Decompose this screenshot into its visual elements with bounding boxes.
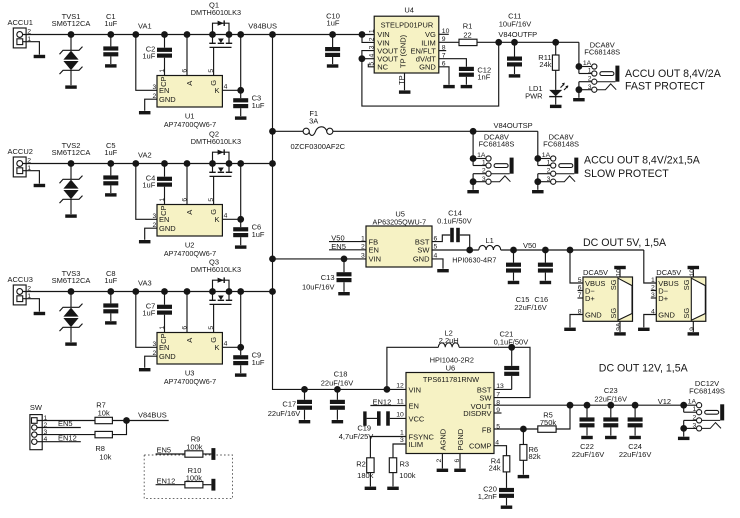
wire V50 to USB A VBUS [567,247,574,254]
svg-text:FC68148S: FC68148S [584,48,620,57]
ground DCA8V slow B [532,190,544,193]
svg-text:7: 7 [496,391,500,398]
svg-text:SG: SG [609,308,618,319]
svg-text:1uF: 1uF [252,101,265,110]
svg-text:VCC: VCC [409,414,425,423]
svg-text:VA3: VA3 [138,278,152,287]
svg-text:PWR: PWR [525,92,543,101]
svg-text:1A: 1A [688,399,697,406]
svg-text:10uF/16V: 10uF/16V [302,283,335,292]
svg-text:SG: SG [609,279,618,290]
ground LD1 [550,105,562,108]
wire to slow connector A [472,131,474,158]
ground AGND [437,469,449,472]
svg-text:V84BUS: V84BUS [248,21,277,30]
svg-text:K: K [214,343,219,352]
wire U5 SW to L1 [432,249,479,251]
svg-text:STELPD01PUR: STELPD01PUR [381,20,434,29]
ground R9 sideways [211,448,215,460]
ground U3 GND [139,368,151,371]
svg-text:6: 6 [181,69,188,73]
svg-text:2: 2 [153,350,157,357]
svg-text:DISDRV: DISDRV [463,409,491,418]
svg-text:1uF: 1uF [142,309,155,318]
svg-text:GND: GND [585,310,602,319]
ground ACCU2 [34,184,46,187]
svg-text:4: 4 [224,83,228,90]
svg-text:10: 10 [616,269,623,277]
wire SW pin3 to R8 [37,434,95,436]
ground C24 [629,436,641,439]
ground C17 [299,420,311,423]
svg-text:1uF: 1uF [104,19,117,28]
svg-text:FAST PROTECT: FAST PROTECT [625,80,705,92]
wire U5 GND to ground [432,259,443,269]
body diode Q3 [213,280,230,291]
wire ACCU3 pin1 to ground [23,299,40,312]
svg-text:V84OUTFP: V84OUTFP [498,30,537,39]
svg-text:VA2: VA2 [138,150,152,159]
ground C15 [508,281,520,284]
DCA8V fast jack contacts [592,64,597,69]
svg-text:1: 1 [368,29,375,33]
svg-text:4: 4 [224,340,228,347]
junction bus row3 [269,288,276,295]
wire DCA5V A D- D+ stubs [578,290,584,292]
ground C5 [105,193,117,196]
wire VA3 rail [23,291,273,293]
svg-text:1uF: 1uF [252,358,265,367]
wire U1 GND pin to ground [145,99,157,111]
svg-text:10k: 10k [98,408,110,417]
op-amp U1 AP74700QW6-7 ideal diode controller [157,76,222,108]
svg-text:EN: EN [409,401,419,410]
svg-text:11: 11 [397,399,404,406]
svg-text:5: 5 [208,326,215,330]
svg-text:HPI0630-4R7: HPI0630-4R7 [452,255,496,264]
svg-text:0ZCF0300AF2C: 0ZCF0300AF2C [290,142,345,151]
ground C20 [501,506,513,509]
svg-text:V84OUTSP: V84OUTSP [494,121,533,130]
svg-text:4,7uF/25V: 4,7uF/25V [339,432,374,441]
svg-text:3: 3 [400,437,404,444]
ground ACCU1 [34,55,46,58]
ground C12 [461,85,473,88]
svg-text:3: 3 [153,213,157,220]
ground C10 [327,64,339,67]
wire USB B GND to ground [644,315,657,328]
svg-text:SW: SW [417,246,430,255]
svg-text:1nF: 1nF [477,73,490,82]
svg-text:24k: 24k [539,60,551,69]
svg-text:EN: EN [159,215,169,224]
ground U5 [437,269,449,272]
ground TVS2 [65,214,77,217]
svg-text:EN: EN [159,86,169,95]
svg-text:DMTH6010LK3: DMTH6010LK3 [191,8,241,17]
svg-text:1: 1 [159,326,166,330]
wire U4 pin10 VG stub [439,33,449,35]
svg-text:FC68148S: FC68148S [543,140,579,149]
svg-text:6: 6 [181,198,188,202]
svg-text:3: 3 [153,341,157,348]
svg-text:GND: GND [419,63,436,72]
svg-text:C13: C13 [321,273,335,282]
wire SW pin4 EN12 [37,441,81,443]
svg-text:TP (GND): TP (GND) [399,34,408,68]
ground TVS1 [65,85,77,88]
wire U2 GND pin to ground [145,228,157,240]
svg-text:10: 10 [442,28,450,35]
svg-text:10k: 10k [99,453,111,462]
node VA3 [132,288,139,295]
svg-text:SLOW PROTECT: SLOW PROTECT [584,168,669,180]
ground R3 [387,487,399,490]
svg-text:GND: GND [159,352,176,361]
svg-text:FC68148S: FC68148S [478,140,514,149]
svg-text:A: A [185,81,194,86]
ground C3 [235,116,247,119]
wire rail to U2 pin 6 A [184,160,191,167]
svg-text:1uF: 1uF [252,230,265,239]
wire DCA5V B shield top to ground [692,269,694,277]
wire U6 BST [494,388,512,390]
svg-text:10: 10 [689,269,696,277]
ground C13 [338,292,350,295]
wire DCA5V A shield top to ground [619,269,621,277]
wire ACCU2 pin1 to ground [23,171,40,184]
svg-text:9: 9 [689,327,696,331]
wire U4 pin2 VIN jog [362,35,374,43]
wire V12 rail [494,404,684,406]
wire U6 DISDRV stub [494,412,502,414]
wire V84OUTFP to fast connector [578,42,580,66]
wire Q1 gate to U1 pin 5 G [213,47,215,75]
ground U4 TP [399,90,411,93]
svg-text:DMTH6010LK3: DMTH6010LK3 [191,137,241,146]
ground R2 [365,487,377,490]
svg-text:1A: 1A [542,152,551,159]
svg-text:2: 2 [153,93,157,100]
ground C9 [235,373,247,376]
svg-text:4: 4 [368,54,375,58]
svg-text:5: 5 [208,198,215,202]
svg-text:EN: EN [369,246,379,255]
svg-text:5: 5 [578,277,582,284]
svg-text:C18: C18 [334,370,348,379]
svg-text:4: 4 [224,212,228,219]
op-amp U3 AP74700QW6-7 ideal diode controller [157,333,222,365]
ground R10 sideways [211,479,215,491]
ground C6 [235,245,247,248]
svg-text:GND: GND [159,95,176,104]
junction C17 [301,386,308,393]
wire V50 rail [501,249,644,251]
dashed option box [144,455,232,499]
svg-text:3A: 3A [309,116,318,125]
svg-text:EN: EN [159,343,169,352]
svg-text:R2: R2 [356,460,366,469]
svg-text:AP74700QW6-7: AP74700QW6-7 [164,249,216,258]
svg-text:4: 4 [651,308,655,315]
capacitor C16 22uF/16V [542,247,549,254]
svg-text:V12: V12 [658,397,671,406]
capacitor C15 22uF/16V [510,247,517,254]
wire SW pin1 to R7 [37,420,95,422]
ground ACCU3 [34,312,46,315]
svg-text:1uF: 1uF [104,276,117,285]
wire rail to U1 pin 6 A [184,31,191,38]
wire VA3 to U3 EN pin [136,292,157,348]
wire SW pin2 EN5 [37,427,81,429]
wire VA2 rail [23,163,273,165]
svg-text:1uF: 1uF [142,52,155,61]
wire Q3 gate to U3 pin 5 G [213,304,215,332]
wire U4 pin3 pin4 VOUT jog [362,51,374,59]
ground U2 GND [139,240,151,243]
wire V84OUTSP [470,128,477,135]
svg-text:ACCU1: ACCU1 [8,18,33,27]
ground DC12V [678,437,690,440]
wire U4 VOUT loop to V84OUTFP [362,42,499,106]
svg-text:AGND: AGND [438,428,447,450]
wire SW node [459,346,512,348]
svg-text:1uF: 1uF [327,19,340,28]
ground C8 [105,321,117,324]
svg-text:2,2uH: 2,2uH [439,336,459,345]
svg-text:EN12: EN12 [157,476,176,485]
ground USB B [638,328,650,331]
svg-text:9A: 9A [616,322,623,331]
wire to inductor L2 [384,386,391,393]
svg-text:PGND: PGND [456,428,465,450]
wire DCA5V A shield bottom to ground [619,321,621,332]
svg-text:13: 13 [496,383,504,390]
body diode Q1 [213,23,230,34]
svg-text:22uF/16V: 22uF/16V [514,303,547,312]
junction bus row2 [269,160,276,167]
svg-text:ACCU OUT 8,4V/2A: ACCU OUT 8,4V/2A [625,68,722,80]
svg-text:SG: SG [682,279,691,290]
svg-text:AP63205QWU-7: AP63205QWU-7 [373,217,427,226]
wire U4 pin8 EN/FLT stub [439,50,446,52]
svg-text:K: K [214,215,219,224]
svg-text:G: G [209,80,218,86]
DC12V jack contacts [697,403,702,408]
svg-text:V50: V50 [523,241,536,250]
svg-text:AP74700QW6-7: AP74700QW6-7 [164,377,216,386]
svg-text:2: 2 [368,37,375,41]
ground PGND [454,469,466,472]
svg-text:22: 22 [463,30,471,39]
svg-text:5: 5 [368,62,375,66]
wire DCA5V B D- D+ stubs [651,290,657,292]
wire VA2 to U2 EN pin [136,164,157,220]
svg-text:EN5: EN5 [58,419,73,428]
ground DCA8V fast [573,98,585,101]
svg-text:DMTH6010LK3: DMTH6010LK3 [191,265,241,274]
wire to slow connector B [537,131,539,158]
svg-text:DC OUT 12V, 1,5A: DC OUT 12V, 1,5A [599,362,689,374]
svg-text:10uF/16V: 10uF/16V [499,19,532,28]
svg-text:GND: GND [159,224,176,233]
svg-text:DCA5V: DCA5V [656,268,681,277]
ground C23 [605,436,617,439]
svg-text:AP74700QW6-7: AP74700QW6-7 [164,120,216,129]
ground C22 [581,436,593,439]
svg-text:22uF/16V: 22uF/16V [572,450,605,459]
svg-text:22uF/16V: 22uF/16V [268,409,301,418]
svg-text:22uF/16V: 22uF/16V [619,450,652,459]
node VA2 [132,160,139,167]
svg-text:C17: C17 [282,400,296,409]
svg-text:8: 8 [442,44,446,51]
svg-text:SM6T12CA: SM6T12CA [52,148,91,157]
svg-text:K: K [214,86,219,95]
svg-text:10: 10 [396,412,404,419]
DCA8V slow B jack contacts [551,156,556,161]
wire U6 FB to R5 [494,428,538,430]
ground U4 GND [443,85,455,88]
wire U4 pin5 NC stub [368,64,374,67]
ground C16 [540,281,552,284]
svg-text:GND: GND [413,255,430,264]
svg-text:ILIM: ILIM [409,440,424,449]
svg-text:D+: D+ [658,294,668,303]
svg-text:SG: SG [682,308,691,319]
svg-text:0.1uF/50V: 0.1uF/50V [437,216,472,225]
ground U1 GND [139,111,151,114]
svg-text:FC68149S: FC68149S [689,386,725,395]
wire DCA5V B shield bottom to ground [692,321,694,332]
wire VA1 to U1 EN pin [136,35,157,91]
wire USB A GND to ground [570,315,583,328]
svg-text:SM6T12CA: SM6T12CA [52,276,91,285]
svg-text:DCA5V: DCA5V [583,268,608,277]
svg-text:ACCU2: ACCU2 [8,147,33,156]
svg-text:5: 5 [208,69,215,73]
wire rail to U3 pin 6 A [184,288,191,295]
svg-text:U6: U6 [446,363,456,372]
svg-text:TPS611781RNW: TPS611781RNW [423,375,479,384]
svg-text:U4: U4 [404,5,414,14]
svg-text:1A: 1A [583,60,592,67]
svg-text:D+: D+ [585,294,595,303]
node VA1 [132,31,139,38]
svg-text:ACCU3: ACCU3 [8,275,33,284]
wire VA1 rail [23,34,375,36]
svg-text:8: 8 [578,308,582,315]
svg-text:3: 3 [153,84,157,91]
wire ACCU1 pin1 to ground [23,42,40,55]
ground C18 [332,420,344,423]
svg-text:A: A [185,338,194,343]
svg-text:24k: 24k [489,463,501,472]
svg-text:ACCU OUT 8,4V/2x1,5A: ACCU OUT 8,4V/2x1,5A [584,155,701,167]
body diode Q2 [213,152,230,163]
svg-text:COMP: COMP [469,442,492,451]
svg-text:6: 6 [181,326,188,330]
DCA8V slow A jack contacts [486,156,491,161]
wire V84BUS vertical bus [273,35,407,390]
svg-text:1uF: 1uF [142,181,155,190]
svg-text:3: 3 [368,45,375,49]
svg-text:1uF: 1uF [104,148,117,157]
svg-text:V84BUS: V84BUS [138,411,167,420]
svg-text:12: 12 [396,383,404,390]
svg-text:1: 1 [651,277,655,284]
svg-text:A: A [185,210,194,215]
svg-text:2: 2 [153,222,157,229]
svg-text:82k: 82k [529,452,541,461]
svg-text:1: 1 [159,198,166,202]
svg-text:R3: R3 [400,460,410,469]
ground R6 [518,475,530,478]
svg-text:G: G [209,209,218,215]
svg-text:DC OUT 5V, 1,5A: DC OUT 5V, 1,5A [583,237,667,249]
ground C11 [509,74,521,77]
svg-text:EN12: EN12 [58,433,77,442]
junction C18 [334,386,341,393]
wire bus to U5 VIN [269,256,276,263]
svg-text:VIN: VIN [409,385,422,394]
svg-text:L1: L1 [486,236,494,245]
svg-text:1A: 1A [477,152,486,159]
svg-text:GND: GND [658,310,675,319]
svg-text:1: 1 [400,430,404,437]
svg-text:FB: FB [482,425,492,434]
svg-text:G: G [209,337,218,343]
ground DCA8V slow A [467,190,479,193]
wire V50 to USB B VBUS [644,250,657,283]
svg-text:1: 1 [159,69,166,73]
op-amp U2 AP74700QW6-7 ideal diode controller [157,205,222,237]
wire U3 GND pin to ground [145,356,157,368]
ground C1 [105,64,117,67]
ground TVS3 [65,342,77,345]
svg-text:EN5: EN5 [157,446,172,455]
ground C19 sideways [363,411,366,425]
svg-text:VIN: VIN [369,255,382,264]
ground USB A [564,328,576,331]
svg-text:1,2nF: 1,2nF [478,492,498,501]
svg-text:100k: 100k [399,471,416,480]
svg-text:R1: R1 [463,22,473,31]
wire Q2 gate to U2 pin 5 G [213,176,215,204]
svg-text:SW: SW [30,403,43,412]
svg-text:NC: NC [377,63,388,72]
svg-text:SM6T12CA: SM6T12CA [52,19,91,28]
svg-text:VA1: VA1 [138,21,152,30]
svg-text:0,1uF/50V: 0,1uF/50V [494,338,529,347]
svg-text:22uF/16V: 22uF/16V [321,378,354,387]
